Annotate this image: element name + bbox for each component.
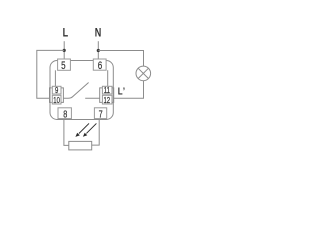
plug bracket inner at 11/12: [100, 88, 102, 103]
terminal 9 box: [52, 86, 61, 95]
terminal 10 box: [52, 95, 61, 105]
wire from lamp to terminal L' (11/12): [114, 81, 144, 99]
switch contact: blade: [68, 83, 89, 99]
wire branch from L to terminals 9/10: [37, 50, 64, 98]
svg-text:’: ’: [123, 86, 125, 98]
internal wire terminal 5 to contact 9: [54, 70, 56, 86]
light arrow 2 into LDR: [83, 123, 97, 136]
wire branch from N to lamp: [98, 51, 143, 67]
svg-text:L: L: [63, 28, 69, 40]
terminal 12 box: [102, 95, 112, 105]
svg-text:10: 10: [53, 96, 60, 105]
internal wire terminal 6 to contact 11: [107, 70, 109, 86]
wire terminal 7 to LDR: [92, 120, 100, 146]
junction dot on L: [63, 49, 66, 52]
terminal 7 box: [94, 108, 106, 120]
switch contact: pivot line from 9/10: [63, 97, 68, 99]
svg-text:5: 5: [61, 60, 65, 73]
wire N drop to terminal 6: [97, 41, 99, 59]
terminal 11 box: [102, 86, 112, 95]
plug bracket outer at 9/10: [50, 88, 52, 103]
svg-text:7: 7: [99, 108, 103, 120]
svg-text:9: 9: [55, 86, 58, 95]
svg-text:N: N: [95, 28, 102, 40]
wire terminal 8 to LDR: [64, 120, 69, 146]
terminal 6 box: [93, 59, 106, 72]
terminal 8 box: [58, 108, 71, 120]
svg-text:12: 12: [103, 96, 110, 105]
terminal 5 box: [58, 59, 71, 72]
junction dot on N: [97, 49, 100, 52]
svg-text:8: 8: [63, 108, 67, 120]
switch contact: fixed side to 11/12: [85, 97, 100, 99]
photoresistor (LDR body): [69, 141, 92, 150]
plug bracket inner at 9/10: [61, 88, 63, 103]
svg-text:11: 11: [104, 86, 110, 95]
lamp (circle with X): [136, 66, 151, 81]
svg-text:6: 6: [98, 60, 102, 73]
plug bracket outer at 11/12 (L'): [112, 88, 114, 103]
device body (twilight switch outline): [50, 61, 113, 120]
wire L drop to terminal 5: [63, 41, 65, 59]
light arrow 1 into LDR: [75, 123, 89, 136]
